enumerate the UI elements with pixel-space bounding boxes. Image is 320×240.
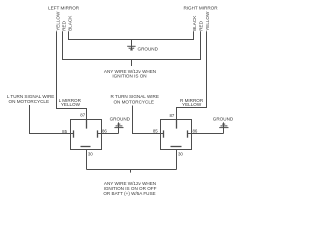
svg-text:87: 87 [80,113,85,118]
svg-text:RED: RED [62,20,67,30]
svg-text:86: 86 [192,129,197,134]
svg-text:OR BATT (+) W/5A FUSE: OR BATT (+) W/5A FUSE [103,191,155,196]
svg-text:YELLOW: YELLOW [61,102,81,107]
svg-text:GROUND: GROUND [138,47,159,52]
svg-text:GROUND: GROUND [110,117,131,122]
svg-text:87: 87 [169,113,174,118]
svg-text:85: 85 [153,129,158,134]
svg-text:30: 30 [88,152,93,157]
svg-text:ON MOTORCYCLE: ON MOTORCYCLE [113,100,154,105]
svg-text:YELLOW: YELLOW [55,11,60,31]
svg-text:ON MOTORCYCLE: ON MOTORCYCLE [9,99,50,104]
svg-text:IGNITION IS ON: IGNITION IS ON [112,74,146,79]
svg-text:85: 85 [62,129,67,134]
svg-text:YELLOW: YELLOW [205,11,210,31]
svg-text:RIGHT MIRROR: RIGHT MIRROR [183,6,218,11]
svg-text:LEFT MIRROR: LEFT MIRROR [48,6,80,11]
svg-text:GROUND: GROUND [213,117,234,122]
svg-text:RED: RED [199,20,204,30]
svg-text:BLACK: BLACK [192,15,197,31]
svg-text:BLACK: BLACK [67,15,72,31]
svg-text:R TURN SIGNAL WIRE: R TURN SIGNAL WIRE [110,94,159,99]
svg-text:YELLOW: YELLOW [182,102,202,107]
svg-text:86: 86 [102,129,107,134]
svg-text:30: 30 [178,152,183,157]
